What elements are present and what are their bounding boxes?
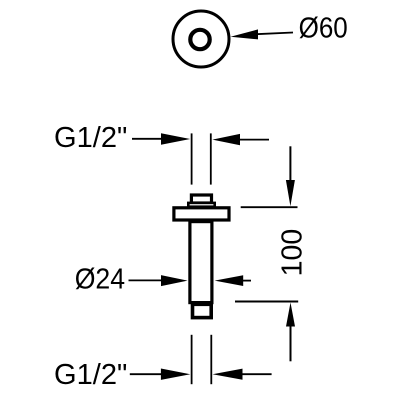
- svg-text:Ø24: Ø24: [75, 263, 125, 295]
- flange outer circle (top view): [173, 11, 229, 67]
- leader arrowhead Ø60: [231, 29, 259, 39]
- bottom dimension extension line left: [191, 335, 193, 384]
- Ø24 right arrow line: [243, 280, 252, 282]
- pipe body: [190, 222, 212, 303]
- top dimension extension line left: [191, 133, 193, 184]
- top dimension left arrowhead: [161, 133, 190, 144]
- 100 dimension up arrowhead: [286, 303, 295, 327]
- bottom dimension right arrow line: [242, 373, 272, 375]
- bottom dimension left arrowhead: [161, 369, 190, 380]
- Ø24 left arrow line: [129, 279, 164, 281]
- 100 dimension lower line: [290, 326, 292, 362]
- pipe step under nub: [188, 203, 214, 207]
- svg-text:Ø60: Ø60: [299, 11, 348, 43]
- pipe top nub (threaded end): [191, 195, 211, 203]
- top dimension extension line right: [210, 133, 212, 184]
- Ø24 left arrowhead: [161, 275, 188, 286]
- leader line Ø60: [256, 33, 293, 35]
- top dimension right arrowhead: [212, 134, 240, 145]
- 100 dimension upper line: [289, 146, 291, 182]
- 100 dimension bottom extension line: [235, 301, 298, 303]
- 100 dimension down arrowhead: [286, 180, 295, 206]
- ceiling flange (front view): [174, 208, 229, 220]
- flange inner ring (top view): [190, 30, 209, 49]
- top dimension right arrow line: [239, 139, 269, 141]
- svg-text:100: 100: [277, 229, 309, 277]
- Ø24 right arrowhead: [215, 275, 244, 286]
- 100 dimension top extension line: [241, 206, 298, 208]
- svg-text:G1/2": G1/2": [54, 359, 127, 391]
- bottom dimension extension line right: [210, 335, 212, 384]
- svg-text:G1/2": G1/2": [54, 122, 127, 154]
- pipe bottom nub (outlet): [193, 304, 212, 317]
- bottom dimension right arrowhead: [213, 369, 243, 380]
- bottom dimension left arrow line: [130, 373, 163, 375]
- top dimension left arrow line: [132, 138, 164, 140]
